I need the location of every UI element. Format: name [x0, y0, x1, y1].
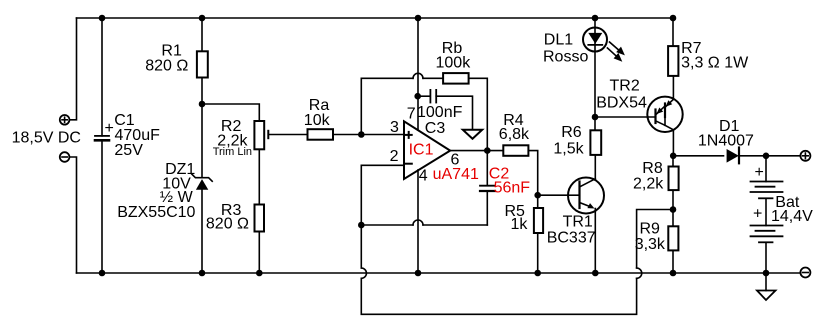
node battery bottom — [764, 271, 769, 276]
svg-text:R9: R9 — [640, 221, 661, 238]
node R3 bottom — [257, 271, 262, 276]
wire pin2 — [361, 165, 404, 225]
svg-text:Trim Lin: Trim Lin — [213, 146, 252, 158]
svg-text:18,5V DC: 18,5V DC — [12, 130, 81, 147]
diode D1 — [673, 155, 724, 157]
wire hop over supply line — [413, 73, 423, 78]
wire Ra to pin3 — [334, 134, 404, 136]
LED DL1 — [583, 28, 607, 52]
wire R1 node to R2 — [202, 104, 259, 120]
node R1 bottom / DZ1 — [200, 102, 205, 107]
node C1 top — [100, 16, 105, 21]
wire C3 left — [418, 95, 430, 97]
wire TR2 base — [595, 116, 656, 118]
svg-text:C3: C3 — [425, 120, 446, 137]
wire pin3 node up to Rb — [361, 78, 413, 134]
wire R2 to R3 — [258, 151, 260, 204]
node output — [485, 148, 490, 153]
svg-text:1k: 1k — [511, 216, 529, 233]
node TR2 collector — [671, 153, 676, 158]
svg-text:100nF: 100nF — [417, 104, 463, 121]
trimmer R2 — [254, 121, 264, 149]
terminal + output — [800, 151, 810, 161]
ground C3 — [463, 130, 482, 139]
svg-text:820 Ω: 820 Ω — [206, 216, 249, 233]
wire bottom rail — [77, 272, 801, 274]
svg-text:IC1: IC1 — [409, 141, 434, 158]
wire C1 column — [101, 18, 103, 136]
svg-text:TR1: TR1 — [563, 213, 593, 230]
resistor R9 — [668, 226, 678, 250]
wire top rail — [77, 17, 674, 19]
capacitor C2 — [486, 151, 488, 186]
svg-text:2: 2 — [390, 148, 399, 165]
wire Rb to output node — [470, 78, 488, 150]
node supply top — [416, 16, 421, 21]
svg-text:R8: R8 — [642, 160, 663, 177]
svg-text:DL1: DL1 — [544, 31, 573, 48]
node R8 bottom — [671, 207, 676, 212]
battery Bat — [765, 156, 767, 182]
svg-text:Rosso: Rosso — [543, 49, 588, 66]
node pin4 bottom — [416, 271, 421, 276]
wire R5 node to TR1 base — [538, 194, 568, 196]
svg-text:4: 4 — [419, 167, 428, 184]
svg-text:R6: R6 — [561, 124, 582, 141]
op-amp IC1 — [404, 121, 450, 179]
resistor Rb — [443, 73, 469, 84]
svg-text:14,4V: 14,4V — [771, 208, 813, 225]
node feedback junction — [359, 223, 364, 228]
resistor R5 — [534, 208, 543, 233]
node C3 tap — [415, 94, 420, 99]
resistor R4 — [503, 145, 528, 156]
wire supply column pin7 — [417, 18, 419, 130]
wire divider sense vertical — [360, 225, 362, 268]
node DL1 bottom / R6 / TR2 base — [593, 115, 598, 120]
wire C3 right to ground — [436, 96, 472, 130]
svg-text:6,8k: 6,8k — [499, 126, 530, 143]
node TR1 emitter bottom — [593, 271, 598, 276]
node pin3 junction — [359, 132, 364, 137]
zener diode DZ1 — [192, 174, 212, 181]
node C1 bottom — [100, 271, 105, 276]
wire left input negative vertical — [69, 157, 76, 273]
svg-text:1,5k: 1,5k — [553, 140, 584, 157]
svg-text:3: 3 — [390, 119, 399, 136]
transistor TR2 — [647, 97, 682, 132]
node R7 top — [671, 16, 676, 21]
svg-text:56nF: 56nF — [494, 180, 531, 197]
node battery top — [764, 153, 769, 158]
svg-text:BC337: BC337 — [547, 229, 596, 246]
resistor R1 — [197, 51, 208, 77]
node R1 top — [200, 16, 205, 21]
LED arrows — [610, 42, 622, 53]
wire R1 column — [201, 18, 203, 50]
svg-text:10k: 10k — [304, 112, 331, 129]
wire hop over pin4 line — [413, 220, 423, 225]
svg-text:820 Ω: 820 Ω — [145, 57, 188, 74]
resistor Ra — [308, 129, 334, 140]
node DL1 top — [593, 16, 598, 21]
resistor R8 — [669, 167, 679, 191]
node DZ1 bottom — [200, 271, 205, 276]
node R5 top — [535, 193, 540, 198]
svg-text:BZX55C10: BZX55C10 — [117, 204, 195, 221]
wire hop over bottom rail — [361, 268, 366, 278]
terminal - output — [800, 268, 810, 278]
wire pin4 column — [417, 170, 419, 273]
svg-text:TR2: TR2 — [610, 78, 640, 95]
svg-text:+: + — [755, 164, 764, 181]
resistor R7 — [668, 46, 678, 76]
terminal - input — [60, 152, 70, 162]
ground battery — [765, 273, 767, 291]
svg-text:100k: 100k — [436, 55, 472, 72]
wire feedback to C2 bottom — [361, 224, 413, 226]
wire hop over bottom rail right — [637, 268, 642, 278]
resistor R3 — [255, 205, 265, 232]
node R9 bottom — [671, 271, 676, 276]
svg-text:7: 7 — [407, 106, 416, 123]
node R5 bottom — [535, 271, 540, 276]
wire R4 to R5 top — [530, 151, 538, 208]
svg-text:3,3k: 3,3k — [635, 236, 666, 253]
wire left input positive vertical — [69, 18, 76, 120]
capacitor C3 — [429, 90, 431, 103]
svg-text:+: + — [105, 120, 114, 137]
terminal + input — [60, 115, 70, 125]
svg-text:uA741: uA741 — [433, 166, 479, 183]
capacitor C1 — [95, 135, 109, 137]
svg-text:2,2k: 2,2k — [633, 176, 664, 193]
svg-text:1N4007: 1N4007 — [698, 133, 754, 150]
svg-text:+: + — [753, 206, 762, 223]
wire R2 wiper to Ra — [268, 134, 306, 136]
svg-text:BDX54: BDX54 — [596, 94, 647, 111]
svg-text:25V: 25V — [114, 142, 143, 159]
transistor TR1 — [568, 178, 604, 214]
resistor R6 — [590, 130, 601, 155]
svg-text:3,3 Ω 1W: 3,3 Ω 1W — [681, 55, 749, 72]
wire op-amp output — [450, 150, 502, 152]
